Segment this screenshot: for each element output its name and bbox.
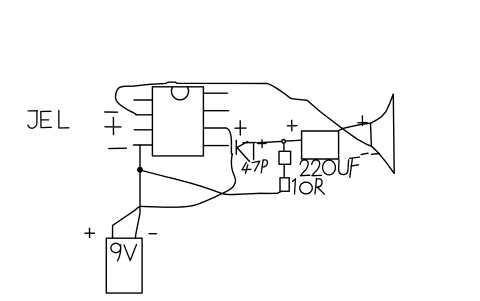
wire pin5 right stub — [203, 145, 228, 147]
wire pin6 to capacitor C1 — [203, 128, 231, 142]
capacitor C1 47P left plate — [230, 142, 232, 154]
wire node A to capacitor C2 — [286, 139, 302, 142]
wire capacitor C2 corner to speaker apex — [338, 129, 343, 131]
resistor R1 body 10R — [280, 178, 289, 192]
wire capacitor C1 to node A — [257, 141, 281, 142]
polarity plus at IC left — [105, 118, 121, 135]
wire pin7 right stub — [203, 110, 228, 112]
value label 220UF — [300, 157, 359, 177]
capacitor C1 arrow lower stroke — [237, 148, 250, 162]
battery BT1 body — [106, 238, 142, 293]
wire capacitor C3 to resistor R1 — [283, 164, 285, 178]
value label 9V — [111, 243, 137, 261]
node A junction ring — [282, 140, 286, 144]
capacitor C1 T-plate bar — [243, 142, 255, 144]
capacitor C2 body 220UF — [302, 131, 339, 159]
polarity plus at speaker top — [358, 116, 367, 126]
wire resistor R1 hook to bottom rail — [278, 191, 282, 193]
capacitor C1 T-plate stem — [253, 143, 255, 160]
value label 10R — [293, 179, 325, 195]
capacitor C1 arrow upper stroke — [237, 142, 248, 148]
wire node A down to capacitor C3 — [283, 144, 285, 152]
op-amp U1 notch — [172, 88, 189, 100]
polarity dash above plus at IC left — [105, 111, 118, 113]
speaker LS1 driver top edge — [342, 123, 370, 128]
battery plus label — [85, 228, 95, 237]
wire pin8 right stub — [203, 92, 227, 94]
capacitor C3 body — [279, 151, 291, 164]
wire bottom rail from node B to resistor R1 — [140, 170, 278, 195]
wire pin4 down through node B to battery minus — [135, 145, 140, 238]
polarity minus at speaker bottom — [361, 153, 379, 154]
wire pin2 left stub — [136, 114, 153, 116]
value label 47P — [242, 160, 267, 173]
wire pin1 left stub — [134, 99, 152, 101]
polarity plus above capacitor C1 — [235, 121, 246, 135]
battery minus label — [149, 233, 156, 235]
polarity plus above node A — [288, 120, 297, 131]
speaker LS1 driver base — [370, 123, 373, 146]
wire pin3 left stub — [134, 129, 152, 131]
wire pin4 left stub — [134, 144, 153, 146]
capacitor C1 47P right plate — [235, 140, 237, 154]
wire battery plus up to capacitor C1 bottom — [113, 154, 236, 238]
speaker LS1 horn top edge — [371, 94, 394, 123]
polarity plus on wire before node A — [258, 140, 266, 148]
node B junction dot — [138, 168, 143, 173]
wire long top loop from pin2 over IC to speaker — [115, 82, 394, 173]
op-amp U1 body — [152, 87, 203, 156]
polarity minus at IC left — [109, 147, 127, 149]
speaker LS1 horn mouth vertical — [392, 94, 395, 173]
schematic title JEL — [28, 110, 69, 128]
